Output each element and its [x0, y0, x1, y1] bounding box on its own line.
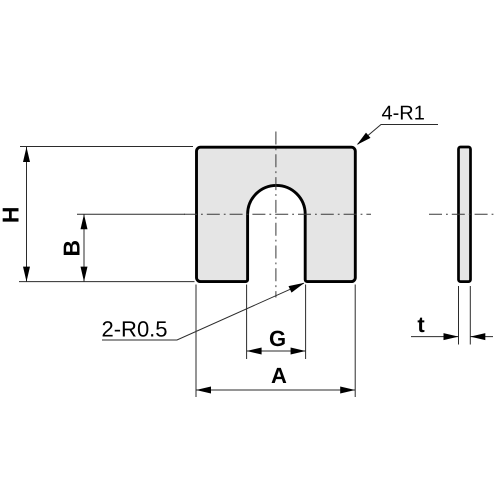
- leader 2-R0.5: [102, 283, 304, 340]
- extension lines t (below side view): [458, 286, 460, 345]
- svg-text:G: G: [269, 326, 286, 351]
- dimension line G: [247, 350, 306, 352]
- svg-text:2-R0.5: 2-R0.5: [102, 317, 168, 342]
- dimension line B: [83, 214, 85, 281]
- svg-text:t: t: [417, 312, 425, 337]
- centerline horizontal (side view): [429, 213, 497, 215]
- leader 4-R1: [358, 125, 438, 145]
- extension line bottom (H/B): [19, 281, 195, 283]
- dimension line A: [196, 389, 355, 391]
- svg-text:H: H: [0, 206, 24, 223]
- extension lines A (bottom): [195, 285, 197, 398]
- centerline horizontal (front view): [184, 213, 371, 215]
- svg-text:4-R1: 4-R1: [382, 103, 425, 125]
- centerline vertical (front view): [275, 132, 277, 298]
- dimension line t (outside arrows): [411, 336, 459, 338]
- plate front view (slotted shim body): [197, 147, 356, 281]
- extension line B top (to centerline): [77, 213, 185, 215]
- extension lines G: [246, 285, 248, 360]
- svg-text:B: B: [58, 240, 84, 257]
- svg-text:A: A: [271, 363, 287, 388]
- dimension line H: [26, 147, 28, 282]
- side view (thickness t): [459, 147, 471, 282]
- extension line top (H): [20, 146, 193, 148]
